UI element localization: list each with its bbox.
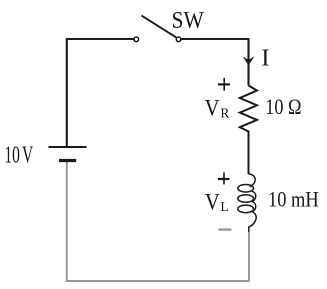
- svg-text:R: R: [220, 106, 229, 121]
- svg-text:10 Ω: 10 Ω: [265, 96, 301, 120]
- svg-text:V: V: [205, 94, 220, 121]
- svg-text:V: V: [205, 190, 220, 215]
- svg-text:10: 10: [4, 142, 19, 168]
- svg-text:L: L: [220, 199, 228, 214]
- svg-text:10 mH: 10 mH: [268, 188, 319, 212]
- svg-text:SW: SW: [172, 6, 205, 34]
- svg-text:V: V: [22, 142, 34, 168]
- svg-text:I: I: [261, 45, 269, 71]
